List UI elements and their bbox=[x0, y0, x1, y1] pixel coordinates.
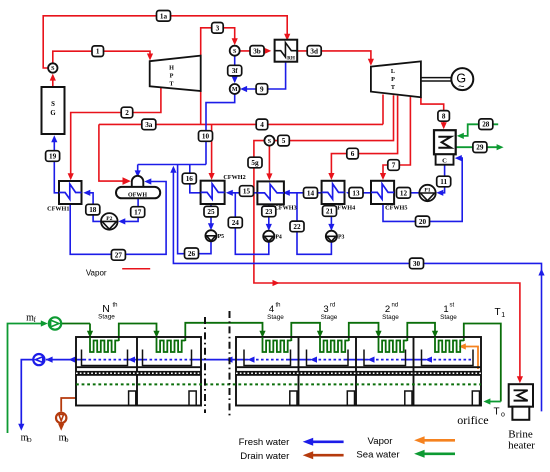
feedwater heater CFWH2 bbox=[201, 174, 246, 204]
svg-text:CFWH5: CFWH5 bbox=[385, 204, 407, 211]
svg-text:1a: 1a bbox=[160, 12, 168, 20]
svg-text:13: 13 bbox=[352, 189, 360, 197]
label To bbox=[493, 407, 505, 419]
MSF stage trays and condenser coils bbox=[82, 337, 474, 365]
legend vapor (small, mid) bbox=[86, 268, 150, 277]
svg-text:CFWH3: CFWH3 bbox=[274, 204, 296, 211]
wire feed 4th to 3rd bbox=[291, 323, 323, 341]
pump P1 bbox=[419, 185, 435, 201]
wire steam line 3b (splitter to reheater) bbox=[240, 48, 271, 54]
wire steam line 3d (reheater to LPT) bbox=[297, 51, 374, 66]
node 17 bbox=[131, 207, 145, 218]
svg-text:4: 4 bbox=[260, 121, 264, 129]
svg-text:T: T bbox=[494, 307, 500, 318]
wire steam line 3a-4 (HPT exhaust / LPT extraction header) bbox=[99, 91, 383, 125]
svg-text:24: 24 bbox=[232, 219, 240, 227]
svg-text:27: 27 bbox=[115, 251, 123, 259]
wire line 19 (CFWH1 to SG) bbox=[51, 135, 59, 193]
wire line 28 (sea water to condenser) bbox=[457, 124, 498, 139]
svg-text:10: 10 bbox=[202, 133, 210, 141]
node 28 bbox=[479, 119, 493, 130]
svg-text:Stage: Stage bbox=[440, 314, 457, 321]
label stage N bbox=[98, 303, 117, 321]
node 15 bbox=[240, 186, 254, 197]
wire line 12 (P1 to CFWH5) bbox=[396, 190, 419, 196]
wire line 10 (mixer M to OFWH) bbox=[206, 95, 235, 165]
svg-text:M: M bbox=[232, 87, 238, 93]
node 7 bbox=[388, 160, 400, 171]
svg-text:P: P bbox=[170, 73, 174, 80]
node 4 bbox=[256, 119, 268, 130]
svg-text:3d: 3d bbox=[310, 47, 318, 55]
wire m_D fresh water out bbox=[18, 357, 52, 431]
wire line 29 (sea water from condenser) bbox=[456, 144, 504, 150]
wire line 25 (CFWH2 drain to P5) bbox=[208, 204, 214, 230]
svg-text:rd: rd bbox=[330, 303, 335, 309]
svg-text:~: ~ bbox=[458, 81, 464, 93]
svg-text:11: 11 bbox=[440, 178, 447, 186]
svg-text:2: 2 bbox=[125, 109, 129, 117]
node 20 bbox=[416, 216, 430, 227]
node 27 bbox=[111, 250, 125, 261]
pump m_D bbox=[33, 354, 44, 365]
pump m_b bbox=[56, 413, 66, 423]
deaerator OFWH bbox=[116, 176, 160, 198]
svg-text:T: T bbox=[493, 407, 499, 418]
node 6 bbox=[347, 148, 359, 159]
node 18 bbox=[86, 204, 100, 215]
svg-text:28: 28 bbox=[482, 121, 490, 129]
svg-text:3b: 3b bbox=[253, 47, 261, 55]
label stage 3 bbox=[321, 303, 338, 322]
label m_D bbox=[21, 433, 32, 445]
turbine HPT bbox=[150, 56, 201, 91]
svg-text:Vapor: Vapor bbox=[86, 268, 107, 277]
node 13 bbox=[349, 188, 363, 199]
svg-text:H: H bbox=[169, 65, 174, 72]
svg-text:5g: 5g bbox=[251, 159, 259, 167]
svg-text:CFWH1: CFWH1 bbox=[47, 205, 69, 212]
svg-text:OFWH: OFWH bbox=[128, 192, 147, 198]
wire steam line 5g (to brine heater) bbox=[254, 141, 523, 384]
reheater RH bbox=[275, 40, 298, 62]
svg-text:26: 26 bbox=[188, 250, 196, 258]
node 1 bbox=[92, 46, 104, 57]
node 3 bbox=[212, 23, 224, 34]
wire line 13 (feedwater CFWH5 to CFWH4) bbox=[346, 190, 371, 196]
node 8 bbox=[438, 111, 450, 122]
node 25 bbox=[204, 206, 218, 217]
svg-text:S: S bbox=[51, 101, 55, 108]
svg-text:G: G bbox=[50, 110, 56, 117]
steam generator SG bbox=[42, 87, 65, 134]
wire line 24 (P4 discharge to feedwater) bbox=[235, 193, 268, 255]
svg-text:o: o bbox=[501, 412, 505, 419]
wire line 20 (CFWH5 drain to condenser) bbox=[383, 155, 462, 221]
wire steam line 6 (LPT extraction to CFWH4) bbox=[328, 96, 397, 180]
svg-text:12: 12 bbox=[400, 189, 408, 197]
svg-text:CFWH2: CFWH2 bbox=[223, 174, 245, 181]
svg-text:22: 22 bbox=[293, 223, 301, 231]
svg-text:21: 21 bbox=[326, 208, 334, 216]
wire steam line 3 (HPT exhaust to splitter) bbox=[201, 28, 238, 56]
condenser hotwell C bbox=[436, 154, 454, 164]
svg-text:Stage: Stage bbox=[382, 314, 399, 321]
svg-text:8: 8 bbox=[442, 112, 446, 120]
svg-text:Fresh water: Fresh water bbox=[239, 437, 290, 448]
svg-text:L: L bbox=[391, 68, 395, 75]
wire feed stage N-1 to 4th bbox=[185, 323, 265, 341]
wire line 17 (OFWH to P2) bbox=[118, 199, 138, 225]
wire line 26 (P5 discharge header) bbox=[178, 165, 211, 254]
wire line 30 (brine heater condensate return) bbox=[170, 166, 544, 412]
svg-text:P4: P4 bbox=[275, 234, 282, 240]
node 3f bbox=[228, 65, 242, 76]
wire steam line 8 (LPT exhaust to condenser) bbox=[421, 97, 447, 129]
node 5g bbox=[248, 157, 262, 168]
wire steam to OFWH (line 3a end) bbox=[99, 124, 131, 184]
node 26 bbox=[185, 248, 199, 259]
pump P4 bbox=[263, 231, 282, 242]
svg-text:th: th bbox=[276, 303, 281, 309]
condenser bbox=[434, 130, 456, 154]
wire steam line 5 (LPT extraction to splitter S3) bbox=[275, 95, 394, 140]
MSF demister strips bbox=[76, 367, 481, 376]
svg-text:P2: P2 bbox=[106, 216, 112, 222]
wire feed to stage N bbox=[62, 324, 94, 338]
wire steam to CFWH2 (line 4 end) bbox=[209, 124, 215, 180]
node 3a bbox=[142, 119, 156, 130]
node 12 bbox=[397, 188, 411, 199]
wire steam line 1a (SG splitter to reheater) bbox=[43, 16, 290, 68]
pump P2 bbox=[101, 213, 118, 230]
wire distillate line through stages bbox=[51, 357, 471, 363]
svg-text:P1: P1 bbox=[424, 187, 430, 193]
node 3b bbox=[250, 46, 264, 57]
wire m_b brine blowdown bbox=[58, 398, 76, 431]
wire line To (brine heater to 1st stage orifice) bbox=[483, 398, 500, 404]
svg-text:P: P bbox=[391, 76, 395, 83]
svg-text:5: 5 bbox=[282, 137, 286, 145]
svg-text:17: 17 bbox=[134, 209, 142, 217]
MSF brine pool line bbox=[76, 383, 481, 385]
shaft bbox=[421, 78, 452, 81]
feedwater heater CFWH4 bbox=[322, 181, 356, 212]
wire line 21 (CFWH4 drain to P3) bbox=[328, 204, 334, 231]
node 24 bbox=[228, 217, 242, 228]
node 9 bbox=[256, 84, 268, 95]
wire line 18 (P2 to CFWH1) bbox=[83, 190, 101, 222]
label stage 4 bbox=[267, 303, 284, 322]
svg-text:C: C bbox=[442, 157, 447, 164]
svg-text:9: 9 bbox=[260, 86, 264, 94]
legend drain water bbox=[240, 451, 343, 462]
label m_f bbox=[26, 313, 37, 325]
wire line 3f (splitter to mixer M) bbox=[232, 56, 238, 83]
svg-text:15: 15 bbox=[243, 188, 251, 196]
svg-text:1: 1 bbox=[501, 312, 505, 319]
label T1 bbox=[494, 307, 505, 319]
node 19 bbox=[46, 151, 60, 162]
splitter S1 bbox=[48, 63, 57, 72]
node 1a bbox=[157, 11, 171, 22]
svg-text:P3: P3 bbox=[338, 234, 345, 240]
svg-text:18: 18 bbox=[89, 206, 97, 214]
legend sea water bbox=[356, 449, 455, 460]
wire OFWH inlet header bbox=[135, 165, 206, 178]
wire line 23 (CFWH3 drain to P4) bbox=[266, 204, 272, 231]
svg-text:Drain water: Drain water bbox=[240, 451, 290, 462]
label orifice bbox=[457, 413, 488, 427]
svg-text:16: 16 bbox=[186, 175, 194, 183]
MSF stage block shells bbox=[76, 337, 481, 406]
pump P3 bbox=[326, 231, 345, 242]
wire line 14 (feedwater CFWH4 to CFWH3) bbox=[283, 190, 322, 196]
pump P5 bbox=[205, 230, 224, 241]
wire steam line 1 (splitter to HPT inlet) bbox=[53, 51, 153, 63]
svg-text:3a: 3a bbox=[145, 121, 153, 129]
svg-text:th: th bbox=[113, 303, 118, 309]
wire line T1 (to brine heater) bbox=[464, 324, 501, 402]
svg-text:7: 7 bbox=[392, 162, 396, 170]
svg-text:D: D bbox=[27, 437, 32, 444]
generator G bbox=[451, 68, 473, 93]
wire feed 3rd to 2nd bbox=[349, 323, 382, 341]
wire CFWH1 drain leg bbox=[69, 203, 71, 205]
label brine heater bbox=[508, 428, 535, 451]
svg-text:20: 20 bbox=[419, 218, 427, 226]
svg-text:Vapor: Vapor bbox=[368, 436, 394, 447]
node 14 bbox=[304, 188, 318, 199]
svg-text:3: 3 bbox=[216, 24, 220, 32]
svg-text:6: 6 bbox=[351, 150, 355, 158]
feedwater heater CFWH1 bbox=[47, 181, 81, 212]
wire steam line 2 (HPT extraction to CFWH1) bbox=[68, 88, 161, 181]
wire line 9 (reheater drain to mixer M) bbox=[240, 62, 286, 92]
svg-text:19: 19 bbox=[49, 153, 57, 161]
node 21 bbox=[323, 206, 337, 217]
wire feed stage N to N-1 bbox=[119, 324, 160, 342]
label stage 1 bbox=[440, 303, 457, 322]
svg-text:heater: heater bbox=[508, 439, 535, 451]
wire feed 2nd to 1st bbox=[407, 323, 438, 341]
separator dash-dot lines bbox=[205, 311, 230, 416]
svg-text:14: 14 bbox=[307, 189, 315, 197]
svg-text:30: 30 bbox=[413, 260, 421, 268]
wire steam line 7 (LPT extraction to CFWH5) bbox=[380, 97, 411, 180]
wire line 22 (P3 discharge to feedwater) bbox=[297, 193, 331, 255]
mixer M bbox=[230, 84, 240, 94]
svg-text:29: 29 bbox=[476, 144, 484, 152]
splitter S2 bbox=[230, 46, 240, 56]
node 10 bbox=[199, 131, 213, 142]
feedwater heater CFWH3 bbox=[257, 181, 296, 211]
node 2 bbox=[121, 107, 133, 118]
svg-text:b: b bbox=[65, 436, 69, 444]
wire line 11 (condenser to P1) bbox=[436, 165, 444, 196]
svg-text:orifice: orifice bbox=[457, 413, 488, 427]
svg-text:st: st bbox=[450, 303, 455, 309]
wire line 27 (CFWH1 drain to OFWH) bbox=[70, 178, 166, 254]
svg-text:3f: 3f bbox=[232, 67, 239, 75]
label m_b bbox=[59, 433, 69, 445]
svg-text:1: 1 bbox=[96, 48, 100, 56]
turbine LPT bbox=[371, 61, 421, 97]
node 23 bbox=[262, 206, 276, 217]
node 16 bbox=[182, 173, 196, 184]
wire steam to CFWH3 (line 5) bbox=[266, 145, 272, 180]
wire m_f feed line bbox=[8, 320, 48, 433]
MSF interstage orifices bbox=[129, 391, 480, 405]
svg-text:RH: RH bbox=[287, 56, 295, 62]
label stage 2 bbox=[382, 303, 399, 322]
pump m_f bbox=[49, 317, 61, 329]
node 5 bbox=[278, 135, 290, 146]
svg-text:25: 25 bbox=[207, 208, 215, 216]
node 30 bbox=[410, 258, 424, 269]
node 22 bbox=[290, 221, 304, 232]
svg-text:23: 23 bbox=[265, 208, 273, 216]
wire line 15 (feedwater CFWH3 to CFWH2) bbox=[226, 190, 258, 196]
svg-text:Stage: Stage bbox=[98, 314, 115, 321]
svg-text:P5: P5 bbox=[218, 234, 225, 240]
svg-text:Stage: Stage bbox=[321, 314, 338, 321]
svg-text:nd: nd bbox=[392, 303, 399, 309]
feedwater heater CFWH5 bbox=[371, 181, 407, 212]
brine heater bbox=[509, 384, 533, 420]
node 11 bbox=[437, 176, 451, 187]
legend vapor arrow bbox=[368, 436, 455, 447]
legend fresh water bbox=[239, 437, 344, 448]
svg-text:Stage: Stage bbox=[267, 314, 284, 321]
node 29 bbox=[473, 142, 487, 153]
wire SG outlet to splitter S bbox=[50, 74, 56, 87]
wire vapor line in 1st stage bbox=[459, 343, 478, 369]
splitter S3 bbox=[264, 136, 274, 146]
svg-text:Sea water: Sea water bbox=[356, 449, 400, 460]
node 3d bbox=[307, 46, 321, 57]
wire line 16 (CFWH2 feedwater out) bbox=[190, 165, 201, 193]
